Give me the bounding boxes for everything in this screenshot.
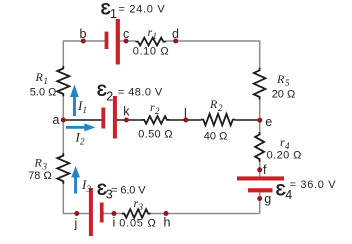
svg-text:0.20 Ω: 0.20 Ω	[267, 149, 302, 161]
svg-text:R: R	[34, 156, 43, 170]
current arrow I2 (blue, right)	[66, 123, 95, 131]
node i junction dot	[112, 211, 117, 216]
current arrow I3 (blue, up)	[71, 166, 80, 194]
battery E4: long positive plate (horizontal)	[237, 176, 284, 180]
wire bottom: battery E3 to r3	[104, 213, 123, 215]
svg-text:1: 1	[110, 7, 117, 21]
svg-text:0.10 Ω: 0.10 Ω	[133, 46, 169, 58]
wire middle: R2 to node e	[235, 119, 260, 121]
svg-text:40 Ω: 40 Ω	[204, 131, 228, 143]
svg-text:= 24.0 V: = 24.0 V	[118, 4, 165, 16]
svg-text:= 6.0 V: = 6.0 V	[111, 185, 146, 197]
svg-text:f: f	[263, 163, 267, 177]
battery E2: long positive plate	[113, 96, 117, 139]
svg-text:j: j	[74, 217, 78, 231]
svg-text:c: c	[123, 27, 129, 41]
node g junction dot	[257, 196, 262, 201]
node h junction dot	[164, 211, 169, 216]
resistor R1 5.0 ohm (left upper)	[57, 66, 69, 96]
svg-text:= 48.0 V: = 48.0 V	[118, 87, 163, 99]
svg-text:h: h	[164, 216, 171, 230]
svg-text:2: 2	[218, 103, 223, 113]
node e junction dot	[257, 118, 262, 123]
svg-text:1: 1	[83, 105, 88, 115]
resistor r2 0.50 ohm (middle)	[142, 116, 170, 124]
node l junction dot	[183, 118, 188, 123]
svg-text:3: 3	[138, 202, 144, 212]
wire middle: battery E2 to r2	[117, 119, 142, 121]
battery E1: short negative plate	[105, 32, 109, 49]
wire right: battery E4 to bottom-right corner	[259, 192, 261, 213]
svg-text:= 36.0 V: = 36.0 V	[290, 179, 337, 191]
resistor R2 40 ohm (middle)	[201, 114, 236, 125]
node k junction dot	[124, 118, 129, 123]
node f junction dot	[257, 167, 262, 172]
wire right: R5 bottom to r4 top through node e	[259, 99, 261, 132]
svg-text:20 Ω: 20 Ω	[272, 89, 296, 101]
node b junction dot	[81, 39, 86, 44]
svg-text:e: e	[265, 115, 272, 129]
resistor r3 0.05 ohm (bottom)	[122, 209, 151, 218]
wire top-left: corner to battery E1	[63, 41, 104, 67]
svg-text:R: R	[35, 70, 44, 84]
battery E1: long positive plate	[116, 19, 120, 65]
svg-text:0.50 Ω: 0.50 Ω	[138, 128, 172, 140]
resistor r1 0.10 ohm (top)	[136, 38, 166, 46]
wire right: r4 bottom to battery E4	[259, 162, 261, 177]
battery E4: short negative plate (horizontal)	[248, 188, 273, 192]
wire left bottom: R3 bottom to bottom-left corner to battery E3	[63, 183, 89, 213]
resistor R5 20 ohm (right upper)	[254, 68, 266, 100]
svg-text:5.0 Ω: 5.0 Ω	[30, 87, 57, 99]
svg-text:b: b	[80, 27, 87, 41]
wire bottom: r3 to bottom-right corner	[150, 213, 259, 215]
svg-text:1: 1	[44, 76, 49, 86]
resistor R3 78 ohm (left lower)	[57, 153, 69, 184]
node d junction dot	[173, 39, 178, 44]
svg-text:k: k	[123, 105, 130, 119]
wire middle: node a to battery E2	[63, 119, 101, 121]
svg-text:a: a	[53, 113, 60, 127]
svg-text:d: d	[172, 27, 179, 41]
battery E3: short negative plate	[100, 203, 104, 223]
svg-text:R: R	[276, 72, 285, 86]
resistor r4 0.20 ohm (right lower)	[255, 132, 264, 162]
svg-text:i: i	[113, 216, 116, 230]
node c junction dot	[124, 39, 129, 44]
svg-text:2: 2	[106, 90, 113, 104]
svg-text:2: 2	[155, 106, 160, 116]
node a junction dot	[61, 118, 66, 123]
wire left middle: R1 bottom to R3 top through node a	[62, 96, 64, 153]
svg-text:3: 3	[86, 184, 92, 194]
battery E3: long positive plate	[89, 188, 93, 236]
svg-text:l: l	[184, 107, 187, 121]
svg-text:2: 2	[80, 137, 85, 147]
node j junction dot	[74, 211, 79, 216]
svg-text:1: 1	[153, 31, 158, 41]
battery E2: short negative plate	[101, 108, 105, 129]
svg-text:R: R	[209, 97, 218, 111]
svg-text:g: g	[264, 192, 271, 206]
wire top-right: battery E1 to right corner, down to R5	[120, 41, 260, 68]
svg-text:0.05 Ω: 0.05 Ω	[119, 218, 155, 230]
wire middle: r2 to R2 through node l	[169, 119, 201, 121]
svg-text:5: 5	[285, 78, 290, 88]
current arrow I1 (blue, up)	[70, 85, 79, 117]
svg-text:78 Ω: 78 Ω	[28, 170, 52, 182]
